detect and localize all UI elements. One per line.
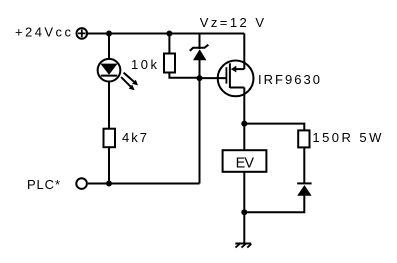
resistor 4k7 bbox=[104, 129, 116, 148]
svg-text:150R 5W: 150R 5W bbox=[312, 130, 382, 145]
wire zener top bbox=[199, 34, 201, 50]
node junction bottom bbox=[241, 209, 247, 215]
terminal +24Vcc bbox=[77, 28, 88, 39]
node junction drain bbox=[241, 121, 247, 127]
resistor 10k bbox=[164, 54, 175, 73]
terminal PLC* bbox=[76, 178, 87, 189]
svg-text:PLC*: PLC* bbox=[27, 177, 60, 192]
wire EV bottom bbox=[243, 172, 245, 213]
svg-text:EV: EV bbox=[236, 155, 255, 171]
wire PLC line bbox=[88, 183, 200, 185]
wire zener bottom bbox=[199, 60, 201, 78]
wire LED top bbox=[108, 34, 110, 60]
node junction rail-10k bbox=[166, 31, 172, 37]
svg-text:4k7: 4k7 bbox=[122, 130, 147, 145]
LED bbox=[98, 59, 138, 90]
node junction rail-LED bbox=[106, 31, 112, 37]
wire gate column bbox=[199, 78, 201, 183]
node junction PLC-4k7 bbox=[106, 181, 112, 187]
wire gate lead bbox=[200, 77, 227, 79]
load EV bbox=[223, 150, 267, 172]
wire ground stem bbox=[243, 212, 245, 243]
zener diode Vz=12V bbox=[190, 45, 209, 61]
wire top rail bbox=[88, 33, 244, 35]
wire 10k top bbox=[168, 34, 170, 54]
wire drain bbox=[243, 88, 245, 151]
svg-text:10k: 10k bbox=[131, 57, 158, 72]
wire source bbox=[243, 34, 245, 70]
wire LED bottom bbox=[108, 81, 110, 129]
wire 150R bottom bbox=[303, 147, 305, 183]
wire diode bottom bbox=[244, 195, 304, 212]
ground bbox=[235, 244, 251, 248]
diode flyback bbox=[297, 183, 311, 195]
resistor 150R 5W bbox=[298, 130, 309, 147]
p-MOSFET IRF9630 bbox=[218, 61, 254, 97]
wire 4k7 bottom bbox=[108, 147, 110, 183]
svg-text:IRF9630: IRF9630 bbox=[258, 72, 320, 87]
wire drain to 150R bbox=[244, 124, 304, 131]
wire 10k bottom bbox=[169, 73, 199, 78]
node junction gate bbox=[197, 75, 203, 81]
